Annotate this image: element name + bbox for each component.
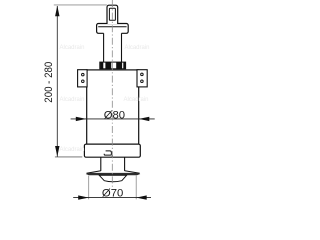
svg-text:Alcadrain: Alcadrain: [124, 45, 149, 51]
svg-text:Alcadrain: Alcadrain: [123, 97, 148, 103]
svg-text:200 - 280: 200 - 280: [43, 62, 55, 103]
svg-text:Alcadrain: Alcadrain: [59, 97, 84, 103]
svg-text:Alcadrain: Alcadrain: [59, 147, 84, 153]
svg-text:Alcadrain: Alcadrain: [59, 45, 84, 51]
svg-text:Ø70: Ø70: [102, 187, 123, 199]
svg-text:Ø80: Ø80: [104, 110, 125, 122]
